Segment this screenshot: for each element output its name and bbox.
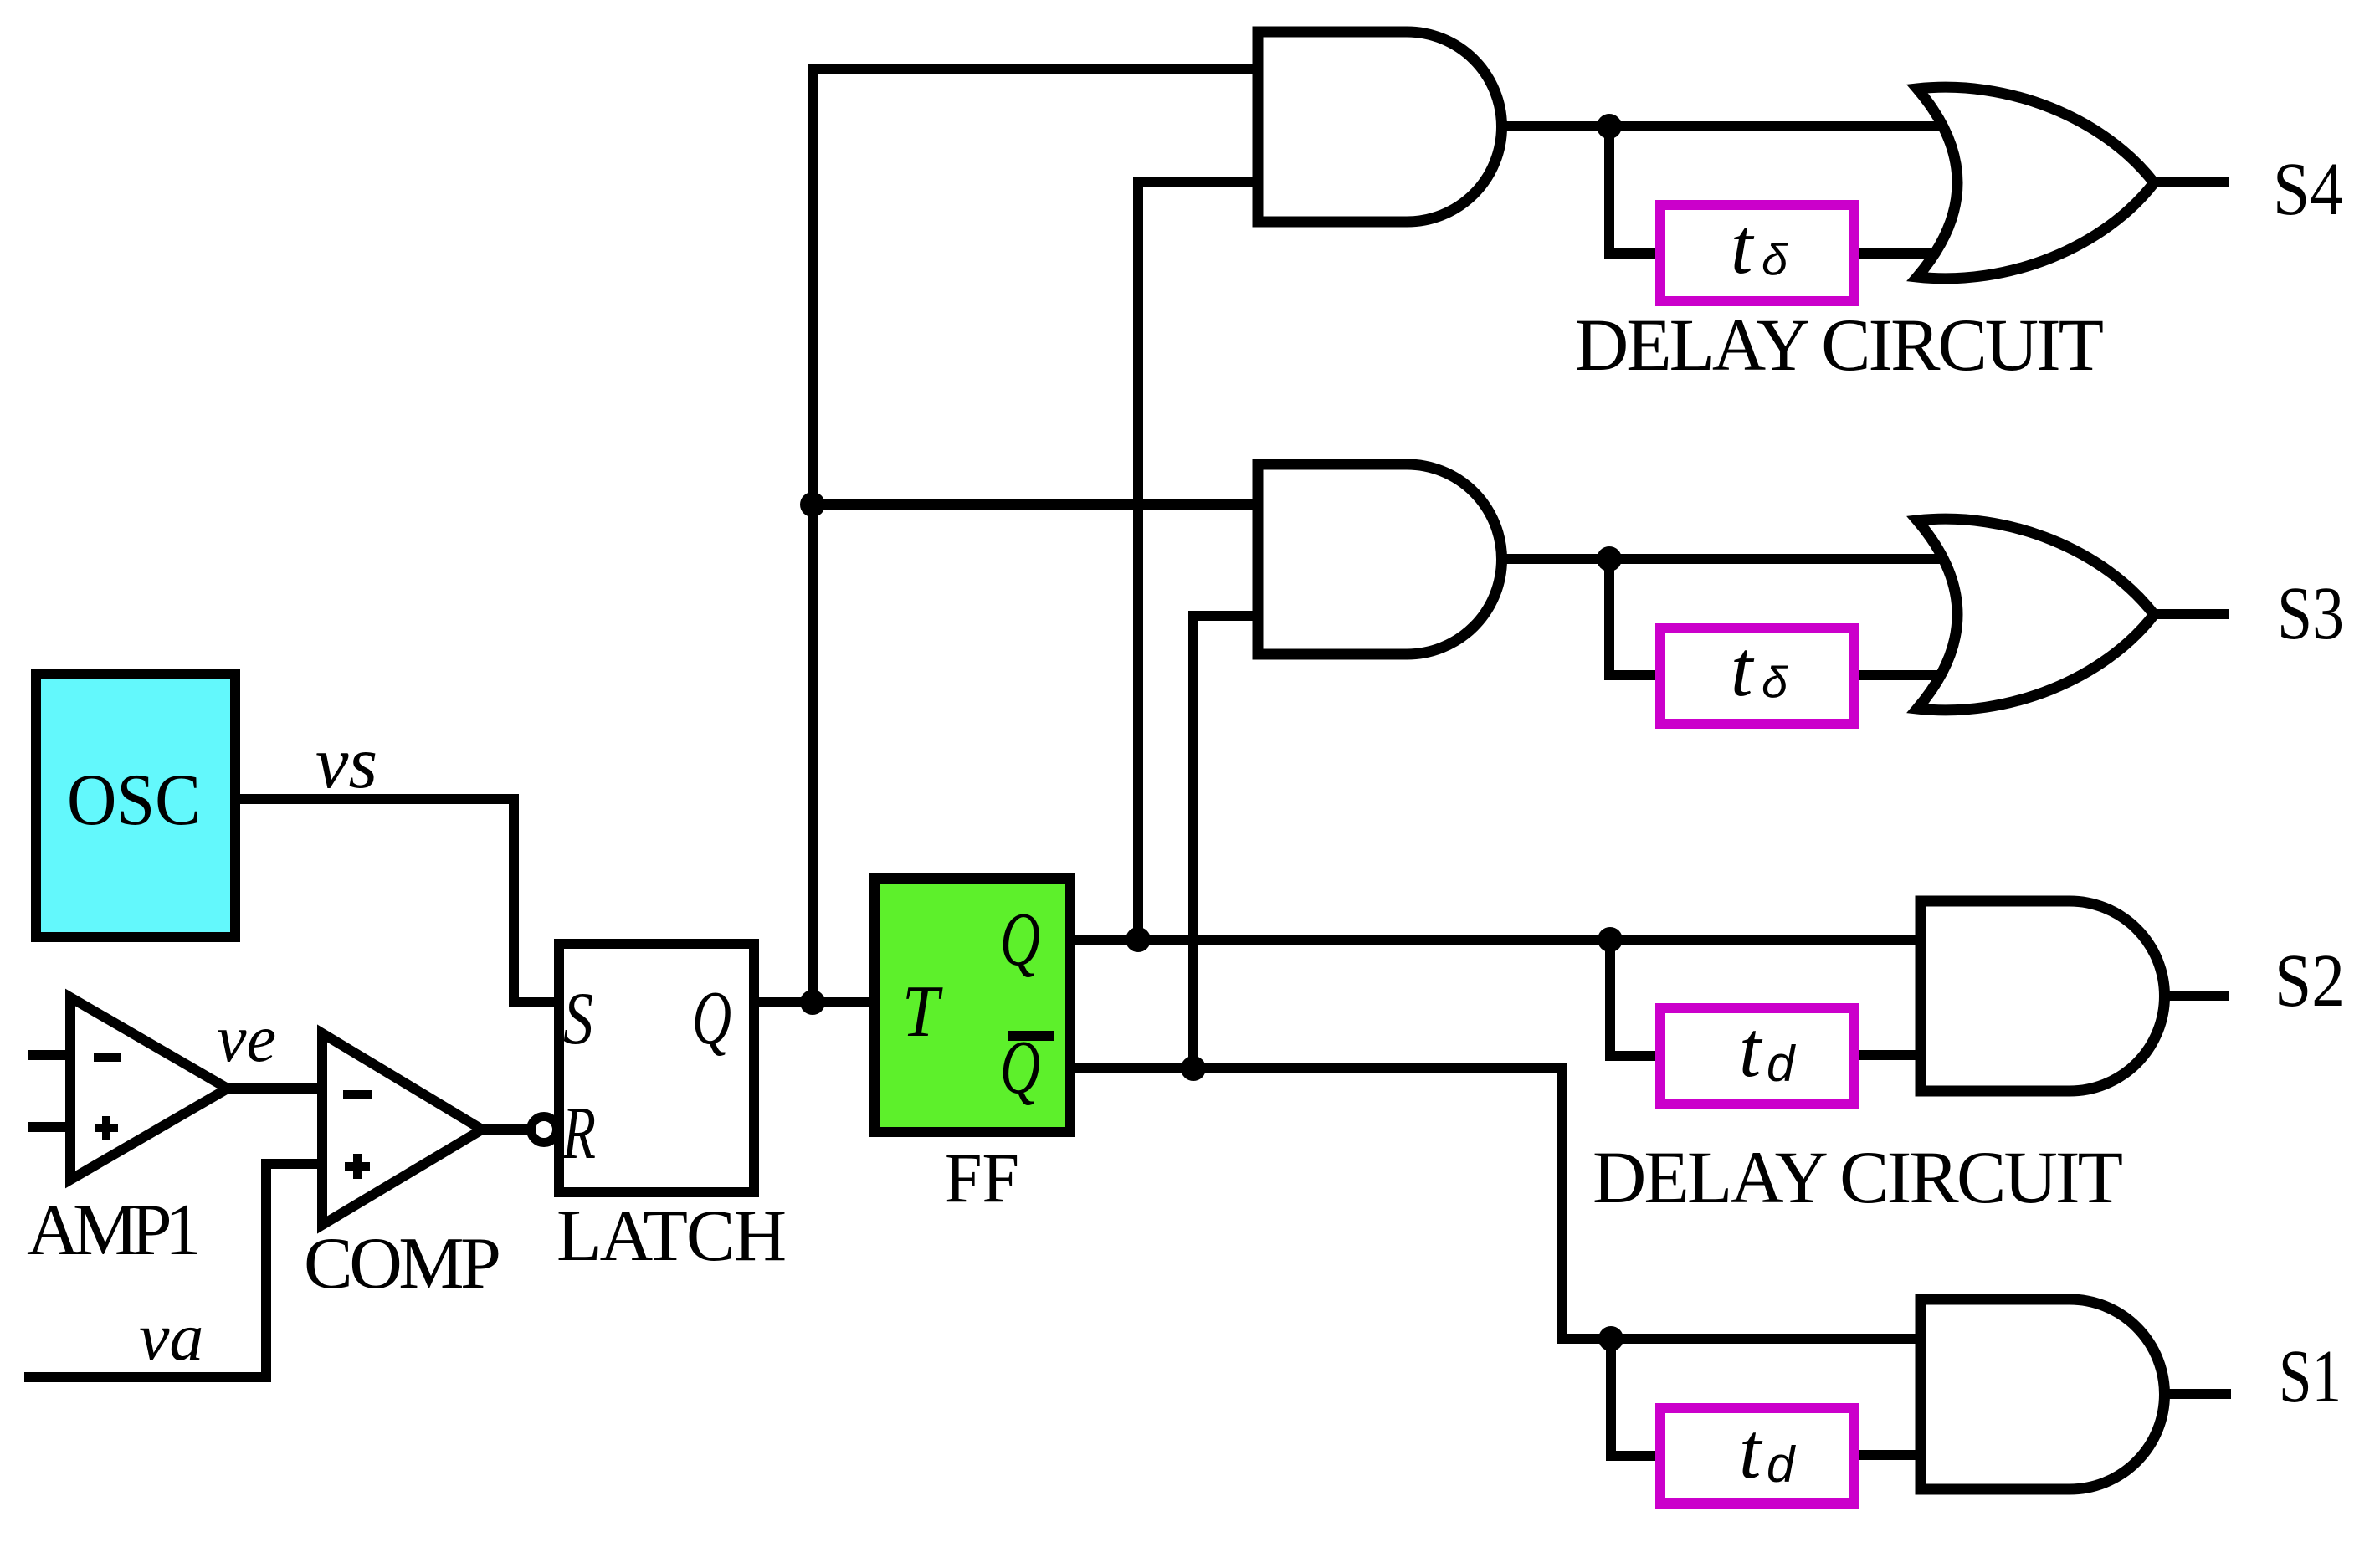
junction node before AND4 [1598,1326,1623,1351]
AND gate U5 (S2 path) [1921,901,2165,1091]
wire: AMP1 inverting input stub [28,1050,70,1060]
wire: junction drop into delay t-d 2 [1611,1339,1660,1456]
svg-text:S1: S1 [2279,1335,2342,1418]
AND gate U4 (S3 path) [1258,464,1501,654]
latch U1 LATCH [557,944,787,1277]
delay box t-delta 1 [1660,202,1854,301]
svg-text:Q: Q [692,976,731,1060]
svg-text:S2: S2 [2275,940,2345,1022]
wire: FF Qbar branch up to AND2 bottom input [1193,616,1264,1068]
wire: junction drop into delay t-d 1 [1610,940,1660,1056]
svg-text:COMP: COMP [304,1223,501,1304]
junction node at LATCH Q [800,990,825,1015]
wire: AND3 output to S2 [2161,991,2229,1001]
wire vs: OSC output to LATCH S [238,799,559,1002]
svg-text:S4: S4 [2273,148,2343,231]
svg-text:t: t [1731,624,1755,713]
OR gate U7 (S4) [1917,87,2154,279]
wire: delay t-delta 2 output to OR2 bottom input [1854,670,1941,680]
wire: OR1 output to S4 [2154,177,2229,187]
OSC block [36,674,235,937]
svg-text:R: R [562,1092,596,1175]
svg-text:T: T [902,971,943,1053]
wire: delay t-d 2 output to AND4 bottom input [1854,1450,1926,1460]
wire: FF Qbar output rail routed down to AND4 top input [1068,1068,1926,1339]
junction node on FF Qbar rail [1181,1056,1206,1081]
delay box t-d 1 [1660,1005,1854,1104]
svg-text:FF: FF [945,1139,1019,1217]
wire: FF Q branch up to AND1 bottom input [1138,182,1264,940]
junction node on FF Q rail [1126,927,1151,952]
svg-text:DELAY CIRCUIT: DELAY CIRCUIT [1575,305,2104,387]
svg-text:t: t [1739,1406,1763,1495]
wire: COMP output to bubble at LATCH R [477,1124,534,1135]
svg-text:va: va [139,1299,203,1375]
svg-text:OSC: OSC [67,760,201,841]
svg-text:DELAY CIRCUIT: DELAY CIRCUIT [1593,1137,2123,1219]
junction node before AND3 [1598,927,1623,952]
wire: delay t-d 1 output to AND3 bottom input [1854,1050,1926,1060]
svg-text:S3: S3 [2277,572,2344,655]
wire: FF Q output rail to AND3 top input [1068,935,1926,945]
wire: junction drop into delay t-delta 2 [1609,559,1660,675]
svg-text:vs: vs [315,722,377,804]
wire: AND2 output to OR2 top input [1498,554,1950,564]
wire: AND4 output to S1 [2161,1389,2231,1399]
svg-text:LATCH: LATCH [557,1196,787,1277]
wire: junction drop into delay t-delta 1 [1609,126,1660,254]
svg-text:ve: ve [217,1002,276,1076]
AND gate U6 (S1 path) [1921,1299,2165,1489]
wire: node Q vertical riser to top rail [813,69,1264,1002]
wire: AND1 output to OR1 top input [1498,121,1950,131]
OR gate U8 (S3) [1917,519,2154,710]
delay box t-d 2 [1660,1406,1854,1504]
wire: delay t-delta 1 output to OR1 bottom input [1854,248,1941,259]
wire: branch from riser to AND2 top input [813,499,1264,510]
junction node at AND1 output [1597,114,1622,139]
svg-text:δ: δ [1762,658,1788,707]
svg-text:d: d [1767,1036,1796,1092]
svg-text:d: d [1767,1437,1796,1493]
flip-flop U2 FF [875,879,1070,1217]
svg-text:S: S [563,978,593,1060]
wire: AMP1 non-inverting input stub [28,1122,70,1132]
comparator COMP [304,1033,501,1304]
inverter bubble at LATCH R input [531,1117,557,1143]
wire ve: AMP1 output to COMP inverting input [226,1083,322,1094]
svg-text:Q: Q [1000,897,1040,981]
svg-text:t: t [1739,1005,1763,1094]
svg-text:t: t [1731,202,1755,290]
AND gate U3 (S4 path) [1258,32,1501,222]
delay box t-delta 2 [1660,624,1854,724]
svg-text:AMP1: AMP1 [27,1190,202,1271]
op-amp AMP1 [27,997,228,1271]
wire: LATCH Q output to FF T input [751,997,877,1007]
wire: OR2 output to S3 [2154,609,2229,619]
junction node on riser to AND2 [800,492,825,517]
wire va: input to COMP non-inverting input [24,1164,322,1377]
junction node at AND2 output [1597,546,1622,571]
svg-text:δ: δ [1762,236,1788,284]
